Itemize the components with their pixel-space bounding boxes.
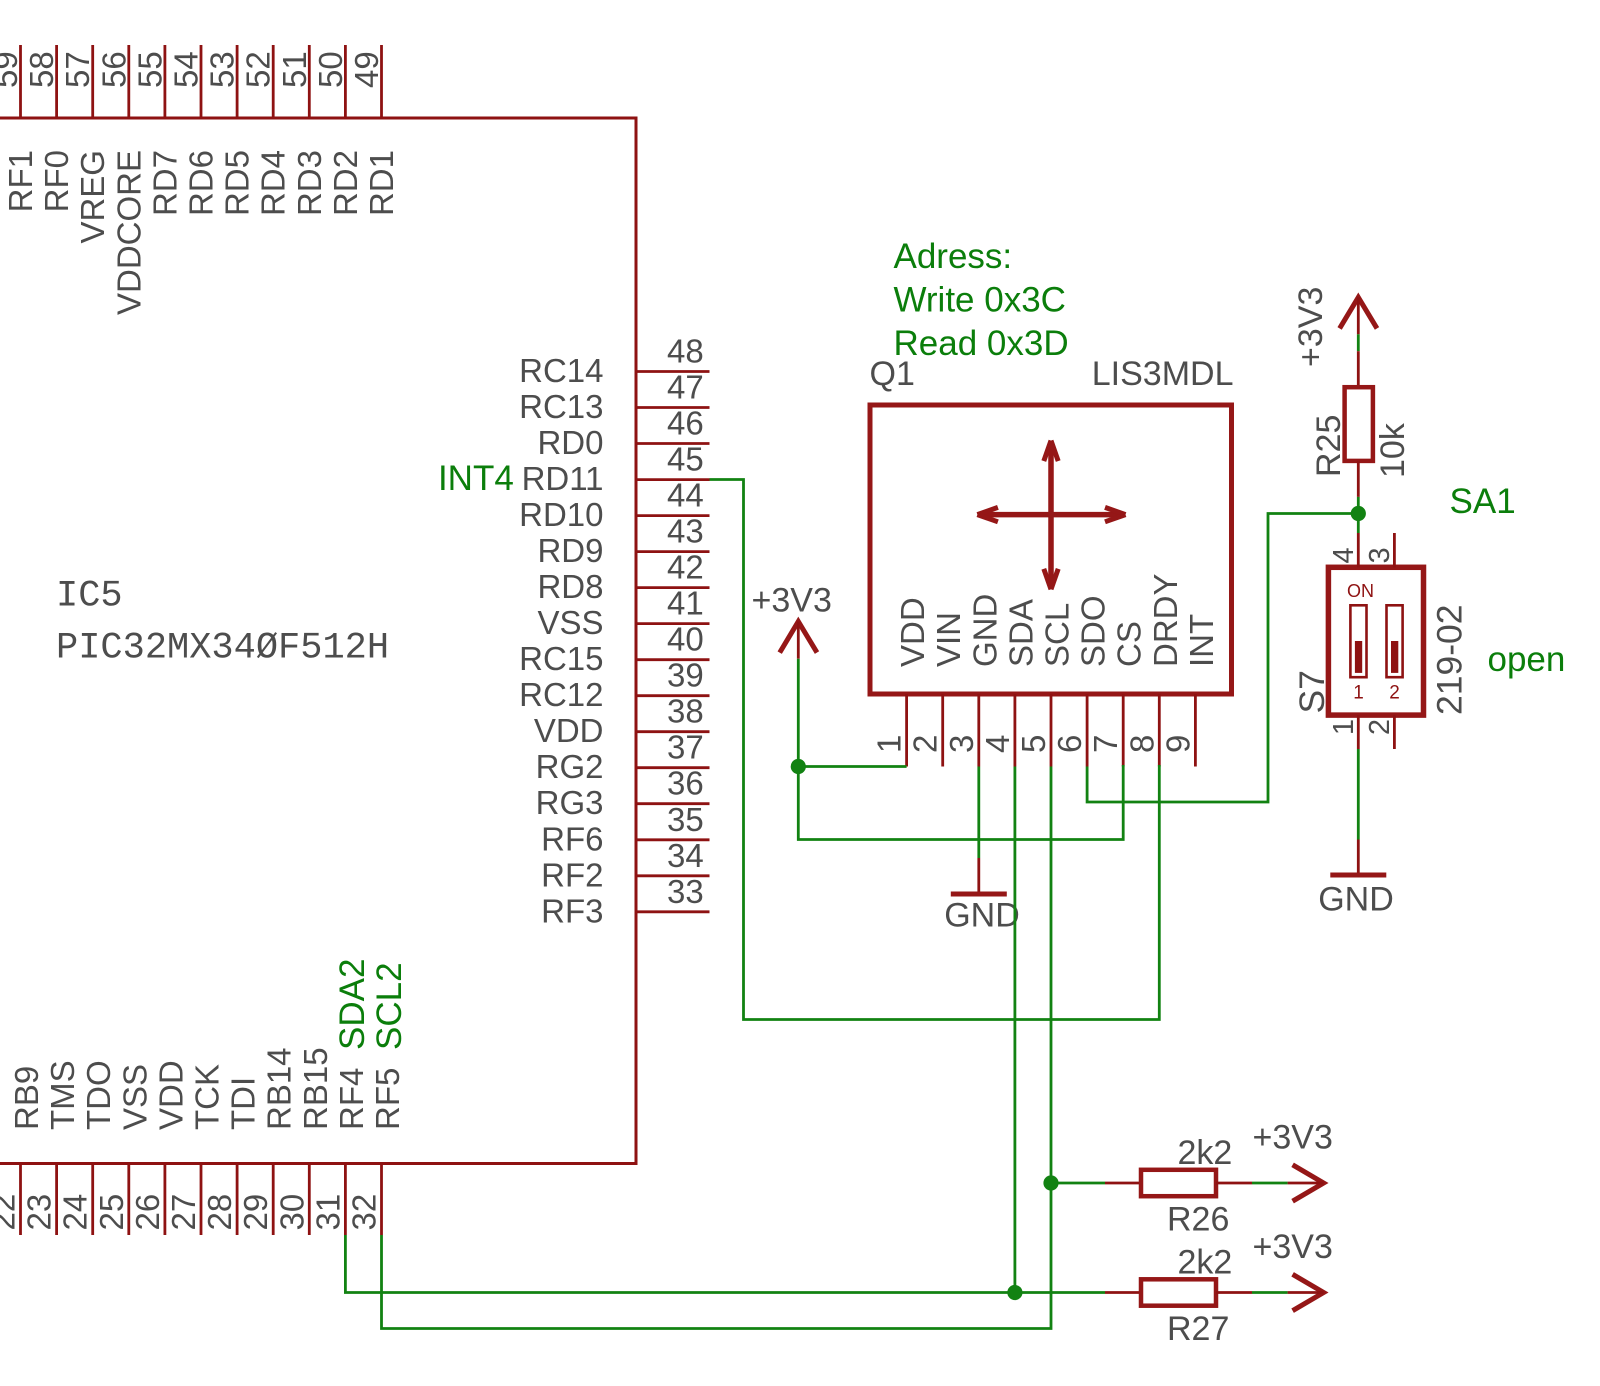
- IC5 pin 22 (RB9): [0, 1066, 45, 1235]
- svg-text:RB9: RB9: [8, 1066, 45, 1130]
- IC5 pin 31 (RF4): [309, 1068, 370, 1235]
- svg-text:33: 33: [667, 873, 704, 910]
- wire SCL net: Q1 pin5 / IC5 pin32 / R26: [382, 767, 1106, 1329]
- IC5 pin 32 (RF5): [346, 1068, 407, 1235]
- svg-text:SA1: SA1: [1450, 482, 1516, 521]
- svg-text:4: 4: [979, 735, 1016, 753]
- Q1 pin 8 (DRDY): [1123, 573, 1184, 766]
- svg-text:GND: GND: [966, 594, 1003, 667]
- junction node SCL: [1043, 1175, 1058, 1190]
- svg-text:RD7: RD7: [146, 150, 183, 216]
- svg-text:RD9: RD9: [537, 532, 603, 569]
- svg-text:45: 45: [667, 441, 704, 478]
- svg-text:TCK: TCK: [189, 1064, 226, 1130]
- wire R26 to +3V3: [1252, 1182, 1288, 1185]
- svg-text:+3V3: +3V3: [752, 582, 832, 620]
- svg-text:RD5: RD5: [219, 150, 256, 216]
- wire +3V3 to R25: [1357, 334, 1360, 351]
- svg-text:RG2: RG2: [536, 748, 604, 785]
- resistor R27: [1105, 1279, 1252, 1305]
- svg-text:RD0: RD0: [537, 424, 603, 461]
- svg-text:RB15: RB15: [297, 1047, 334, 1130]
- IC5 pin 37 (RG2): [536, 729, 710, 786]
- svg-text:2k2: 2k2: [1178, 1134, 1233, 1172]
- IC5 pin 45 (RD11): [522, 441, 710, 498]
- S7 pin 2: [1364, 715, 1396, 749]
- svg-text:52: 52: [240, 51, 277, 88]
- IC5 pin 51 (RD3): [276, 45, 328, 216]
- svg-text:VIN: VIN: [930, 612, 967, 667]
- svg-text:44: 44: [667, 477, 704, 514]
- Q1 pin 6 (SDO): [1051, 595, 1112, 766]
- svg-text:4: 4: [1328, 547, 1360, 563]
- Q1 pin 3 (GND): [943, 594, 1004, 767]
- supply +3V3 symbol (R27): [1288, 1274, 1324, 1310]
- IC5 pin 28 (TDI): [201, 1077, 262, 1235]
- svg-text:RC15: RC15: [519, 640, 603, 677]
- IC5 pin 27 (TCK): [165, 1064, 226, 1235]
- junction node SDA: [1007, 1285, 1022, 1300]
- svg-text:CS: CS: [1111, 621, 1148, 667]
- svg-text:PIC32MX34ØF512H: PIC32MX34ØF512H: [56, 628, 389, 670]
- svg-text:47: 47: [667, 369, 704, 406]
- svg-text:SCL2: SCL2: [370, 962, 409, 1050]
- S7 slider 1: [1350, 605, 1366, 677]
- svg-text:RD1: RD1: [363, 150, 400, 216]
- svg-text:RB14: RB14: [261, 1047, 298, 1130]
- svg-text:R25: R25: [1310, 415, 1348, 477]
- wire R27 to +3V3: [1252, 1291, 1288, 1294]
- svg-text:2: 2: [907, 735, 944, 753]
- Q1 pin 9 (INT): [1159, 614, 1220, 767]
- svg-text:7: 7: [1087, 735, 1124, 753]
- svg-text:54: 54: [168, 51, 205, 88]
- svg-text:3: 3: [943, 735, 980, 753]
- svg-text:IC5: IC5: [56, 576, 123, 618]
- supply +3V3 symbol (R26): [1288, 1165, 1324, 1201]
- svg-text:RF1: RF1: [2, 150, 39, 212]
- S7 slider 2: [1387, 605, 1403, 677]
- svg-text:RD6: RD6: [183, 150, 220, 216]
- svg-text:S7: S7: [1292, 670, 1332, 713]
- svg-text:SDA: SDA: [1002, 599, 1039, 667]
- svg-text:2: 2: [1364, 719, 1396, 735]
- Q1 axes cross arrow vertical: [1044, 441, 1058, 590]
- switch S7 body: [1328, 567, 1423, 715]
- svg-text:22: 22: [0, 1194, 22, 1231]
- S7 pin 4: [1328, 533, 1360, 567]
- svg-text:41: 41: [667, 585, 704, 622]
- svg-text:1: 1: [1353, 683, 1364, 704]
- svg-text:R27: R27: [1167, 1310, 1229, 1348]
- svg-text:5: 5: [1015, 735, 1052, 753]
- S7 pin 1: [1328, 715, 1360, 749]
- supply +3V3 symbol (R25 top): [1340, 297, 1377, 334]
- svg-text:8: 8: [1123, 735, 1160, 753]
- svg-text:R26: R26: [1167, 1201, 1229, 1239]
- svg-text:RF5: RF5: [369, 1068, 406, 1130]
- wire SDO net: Q1 pin6 to SA1/R25: [1087, 514, 1358, 803]
- IC5 pin 35 (RF6): [541, 801, 709, 858]
- svg-text:RF0: RF0: [38, 150, 75, 212]
- svg-text:RD4: RD4: [255, 150, 292, 216]
- resistor R26: [1105, 1170, 1252, 1196]
- svg-text:25: 25: [93, 1194, 130, 1231]
- svg-text:36: 36: [667, 765, 704, 802]
- svg-text:RD8: RD8: [537, 568, 603, 605]
- svg-text:9: 9: [1159, 735, 1196, 753]
- svg-text:RF6: RF6: [541, 820, 603, 857]
- svg-text:VDDCORE: VDDCORE: [110, 150, 147, 315]
- svg-text:57: 57: [59, 51, 96, 88]
- wire Q1 GND pin to ground: [977, 767, 980, 859]
- svg-text:49: 49: [348, 51, 385, 88]
- svg-text:42: 42: [667, 549, 704, 586]
- svg-text:RF3: RF3: [541, 892, 603, 929]
- IC5 pin 30 (RB15): [273, 1047, 334, 1235]
- IC5 pin 48 (RC14): [519, 333, 709, 390]
- svg-text:RD11: RD11: [522, 460, 604, 497]
- svg-text:53: 53: [204, 51, 241, 88]
- svg-text:28: 28: [201, 1194, 238, 1231]
- svg-text:VDD: VDD: [534, 712, 604, 749]
- svg-text:10k: 10k: [1374, 422, 1412, 478]
- svg-text:6: 6: [1051, 735, 1088, 753]
- svg-text:2k2: 2k2: [1178, 1244, 1233, 1282]
- junction node SA1/R25: [1351, 506, 1366, 521]
- wire +3V3 to Q1 CS: [798, 765, 1123, 840]
- wire R25 to junction: [1357, 497, 1360, 533]
- IC5 pin 59 (RF1): [0, 45, 39, 212]
- svg-text:RF2: RF2: [541, 856, 603, 893]
- IC5 pin 43 (RD9): [537, 513, 709, 570]
- svg-text:219-02: 219-02: [1430, 604, 1470, 715]
- svg-text:INT: INT: [1183, 614, 1220, 667]
- svg-text:37: 37: [667, 729, 704, 766]
- svg-text:VREG: VREG: [74, 150, 111, 244]
- svg-text:RD3: RD3: [291, 150, 328, 216]
- svg-text:ON: ON: [1347, 581, 1374, 601]
- svg-text:29: 29: [237, 1194, 274, 1231]
- IC IC5 body: [0, 118, 636, 1164]
- svg-text:46: 46: [667, 405, 704, 442]
- Q1 pin 4 (SDA): [979, 599, 1040, 766]
- svg-text:open: open: [1488, 640, 1566, 679]
- IC5 pin 42 (RD8): [537, 549, 709, 606]
- svg-text:GND: GND: [944, 897, 1020, 935]
- svg-text:38: 38: [667, 693, 704, 730]
- IC5 pin 36 (RG3): [536, 765, 710, 822]
- svg-text:RF4: RF4: [333, 1068, 370, 1130]
- S7 pin 3: [1364, 533, 1396, 567]
- IC5 pin 40 (RC15): [519, 621, 709, 678]
- svg-text:Adress:: Adress:: [894, 237, 1013, 276]
- svg-text:1: 1: [1328, 719, 1360, 735]
- IC5 pin 33 (RF3): [541, 873, 709, 930]
- svg-text:VDD: VDD: [894, 597, 931, 667]
- junction node +3V3/VDD: [791, 759, 806, 774]
- IC5 pin 38 (VDD): [534, 693, 710, 750]
- IC5 pin 53 (RD5): [204, 45, 256, 216]
- svg-text:INT4: INT4: [438, 459, 514, 498]
- IC5 pin 54 (RD6): [168, 45, 220, 216]
- svg-text:Write 0x3C: Write 0x3C: [894, 281, 1066, 320]
- svg-text:3: 3: [1364, 547, 1396, 563]
- IC5 pin 46 (RD0): [537, 405, 709, 462]
- Q1 pin 7 (CS): [1087, 621, 1148, 766]
- svg-text:27: 27: [165, 1194, 202, 1231]
- IC5 pin 39 (RC12): [519, 657, 709, 714]
- IC5 pin 47 (RC13): [519, 369, 709, 426]
- svg-text:TDI: TDI: [225, 1077, 262, 1130]
- wire S7 pin1 to ground: [1357, 749, 1360, 840]
- svg-text:RD10: RD10: [519, 496, 603, 533]
- svg-text:TMS: TMS: [44, 1060, 81, 1130]
- IC5 pin 50 (RD2): [312, 45, 364, 216]
- resistor R25: [1345, 351, 1373, 497]
- svg-text:56: 56: [95, 51, 132, 88]
- svg-text:VSS: VSS: [116, 1064, 153, 1130]
- svg-text:30: 30: [273, 1194, 310, 1231]
- svg-text:58: 58: [23, 51, 60, 88]
- IC5 pin 56 (VDDCORE): [95, 45, 147, 315]
- Q1 pin 5 (SCL): [1015, 603, 1076, 767]
- svg-text:SDO: SDO: [1075, 595, 1112, 667]
- svg-text:59: 59: [0, 51, 24, 88]
- svg-text:RC13: RC13: [519, 388, 603, 425]
- svg-text:SCL: SCL: [1039, 603, 1076, 667]
- wire INT4: IC5 pin45 to Q1 DRDY: [710, 480, 1160, 1020]
- IC5 pin 41 (VSS): [537, 585, 709, 642]
- svg-text:+3V3: +3V3: [1253, 1119, 1333, 1157]
- ground symbol GND (S7): [1330, 840, 1386, 876]
- IC5 pin 52 (RD4): [240, 45, 292, 216]
- svg-text:RC12: RC12: [519, 676, 603, 713]
- svg-text:RG3: RG3: [536, 784, 604, 821]
- IC5 pin 26 (VDD): [129, 1060, 190, 1235]
- IC5 pin 29 (RB14): [237, 1047, 298, 1235]
- IC5 pin 23 (TMS): [21, 1060, 82, 1235]
- svg-text:40: 40: [667, 621, 704, 658]
- svg-text:RD2: RD2: [327, 150, 364, 216]
- svg-text:+3V3: +3V3: [1292, 287, 1330, 367]
- IC5 pin 34 (RF2): [541, 837, 709, 894]
- IC5 pin 58 (RF0): [23, 45, 75, 212]
- svg-text:DRDY: DRDY: [1147, 573, 1184, 667]
- IC5 pin 57 (VREG): [59, 45, 111, 244]
- magnetometer U/Q1 body: [870, 405, 1232, 694]
- wire SDA net: Q1 pin4 / IC5 pin31 / R27: [345, 767, 1105, 1293]
- svg-text:24: 24: [57, 1194, 94, 1231]
- svg-text:51: 51: [276, 51, 313, 88]
- Q1 pin 2 (VIN): [907, 612, 968, 767]
- IC5 pin 24 (TDO): [57, 1060, 118, 1235]
- Q1 axes cross arrow horizontal: [977, 507, 1125, 521]
- svg-text:2: 2: [1389, 683, 1400, 704]
- svg-text:43: 43: [667, 513, 704, 550]
- svg-text:VSS: VSS: [537, 604, 603, 641]
- svg-text:50: 50: [312, 51, 349, 88]
- svg-text:31: 31: [309, 1194, 346, 1231]
- IC5 pin 49 (RD1): [348, 45, 400, 216]
- svg-text:39: 39: [667, 657, 704, 694]
- svg-text:SDA2: SDA2: [333, 959, 372, 1050]
- wire +3V3 to Q1 VDD: [798, 659, 906, 767]
- IC5 pin 25 (VSS): [93, 1064, 154, 1235]
- svg-text:GND: GND: [1318, 881, 1394, 919]
- ground symbol GND (Q1): [951, 858, 1007, 894]
- supply +3V3 symbol (left): [780, 622, 817, 659]
- svg-text:55: 55: [131, 51, 168, 88]
- svg-text:48: 48: [667, 333, 704, 370]
- svg-text:32: 32: [346, 1194, 383, 1231]
- svg-text:26: 26: [129, 1194, 166, 1231]
- Q1 pin 1 (VDD): [871, 597, 932, 766]
- svg-text:LIS3MDL: LIS3MDL: [1092, 355, 1234, 393]
- svg-text:Read 0x3D: Read 0x3D: [894, 324, 1069, 363]
- svg-text:RC14: RC14: [519, 352, 603, 389]
- IC5 pin 44 (RD10): [519, 477, 709, 533]
- svg-text:VDD: VDD: [152, 1060, 189, 1130]
- svg-text:TDO: TDO: [80, 1060, 117, 1130]
- svg-text:35: 35: [667, 801, 704, 838]
- svg-text:1: 1: [871, 735, 908, 753]
- svg-text:34: 34: [667, 837, 704, 874]
- IC5 pin 55 (RD7): [131, 45, 183, 216]
- svg-text:23: 23: [21, 1194, 58, 1231]
- svg-text:+3V3: +3V3: [1253, 1228, 1333, 1266]
